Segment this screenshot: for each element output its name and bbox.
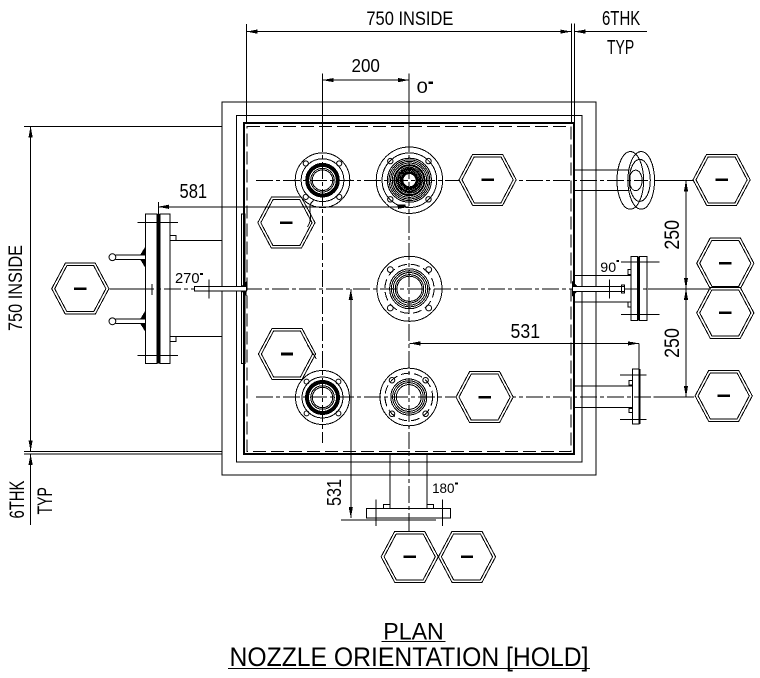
svg-text:531: 531 [324,479,346,506]
svg-text:6THK: 6THK [602,8,641,30]
svg-text:581: 581 [180,181,208,203]
svg-text:531: 531 [511,321,541,343]
svg-text:90: 90 [600,259,616,275]
svg-text:270: 270 [175,270,200,287]
svg-text:200: 200 [352,55,380,76]
svg-text:TYP: TYP [607,37,634,59]
svg-text:NOZZLE ORIENTATION [HOLD]: NOZZLE ORIENTATION [HOLD] [230,642,589,672]
svg-text:750 INSIDE: 750 INSIDE [6,245,27,331]
svg-text:180: 180 [432,480,455,496]
svg-text:0: 0 [417,79,428,97]
svg-text:6THK: 6THK [6,481,29,519]
svg-text:750 INSIDE: 750 INSIDE [366,9,453,30]
svg-text:250: 250 [661,220,684,250]
svg-text:250: 250 [661,328,684,358]
svg-text:TYP: TYP [34,487,57,514]
